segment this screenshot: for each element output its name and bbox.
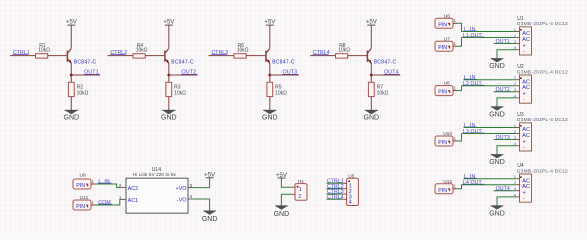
wire L1 OUT — [462, 37, 517, 39]
svg-text:R5: R5 — [275, 84, 282, 90]
transistor BC847-C — [66, 51, 68, 62]
wire +VO to +5V — [194, 178, 210, 188]
svg-text:+5V: +5V — [163, 19, 175, 26]
wire — [371, 74, 400, 76]
H1 pin 1 — [292, 186, 296, 188]
resistor R5 10k — [267, 82, 273, 96]
svg-text:AC2: AC2 — [128, 186, 139, 192]
svg-text:Hi Link 5V 220 to 5v: Hi Link 5V 220 to 5v — [133, 172, 177, 177]
wire — [457, 185, 462, 189]
svg-text:G3MB-202PL-4 DC12: G3MB-202PL-4 DC12 — [517, 117, 568, 122]
svg-text:OUT3: OUT3 — [496, 135, 510, 141]
wire L_IN — [464, 178, 517, 180]
svg-text:GND: GND — [489, 111, 505, 118]
svg-text:10kΩ: 10kΩ — [136, 48, 148, 54]
wire — [370, 63, 372, 82]
resistor R4 10k — [133, 54, 145, 58]
wire H1 pin2 to GND — [281, 194, 291, 206]
svg-text:+5V: +5V — [264, 19, 276, 26]
connector U10 PIN — [435, 136, 453, 146]
relay U1 pins 1-4 — [516, 31, 519, 33]
svg-text:U8: U8 — [444, 81, 450, 87]
svg-text:AC: AC — [522, 37, 530, 43]
relay U2 pins 1-4 — [516, 79, 519, 81]
svg-text:U9: U9 — [80, 173, 86, 179]
wire OUT3 — [494, 139, 517, 141]
svg-text:+5V: +5V — [366, 19, 378, 26]
svg-text:-: - — [523, 196, 525, 202]
svg-text:GND: GND — [489, 159, 505, 166]
wire — [327, 188, 344, 190]
svg-text:R3: R3 — [174, 84, 181, 90]
svg-text:10kΩ: 10kΩ — [275, 91, 287, 97]
U14 pin 2 AC2 — [120, 187, 126, 189]
wire L3 OUT — [462, 133, 517, 135]
svg-text:PIN: PIN — [438, 188, 447, 194]
svg-text:GND: GND — [64, 115, 80, 122]
resistor R1 10k — [36, 54, 48, 58]
svg-text:PIN: PIN — [438, 22, 447, 28]
junction OUT1 — [70, 74, 73, 77]
svg-text:G3MB-202PL-4 DC12: G3MB-202PL-4 DC12 — [517, 168, 568, 173]
ground — [491, 206, 504, 210]
ground — [65, 110, 78, 114]
svg-text:BC847-C: BC847-C — [272, 59, 295, 65]
wire — [168, 97, 170, 111]
wire OUT1 — [494, 43, 517, 45]
ground — [275, 206, 288, 210]
connector U9 PIN — [73, 179, 91, 189]
svg-text:AC: AC — [522, 133, 530, 139]
resistor R6 10k — [234, 54, 246, 58]
svg-text:-: - — [523, 49, 525, 55]
ground — [203, 211, 216, 215]
wire L_IN — [464, 79, 517, 81]
wire — [169, 74, 198, 76]
svg-text:PIN: PIN — [438, 90, 447, 96]
U5 pin 3 — [343, 193, 346, 195]
wire L2 OUT — [462, 85, 517, 87]
svg-text:BC847-C: BC847-C — [374, 59, 397, 65]
resistor R2 10k — [68, 82, 74, 96]
ground — [263, 110, 276, 114]
wire — [209, 55, 235, 57]
ground — [491, 107, 504, 111]
U14 pin 1 AC1 — [120, 198, 126, 200]
wire L_IN — [464, 127, 517, 129]
connector U11 PIN — [73, 200, 91, 210]
svg-text:U11: U11 — [80, 195, 89, 201]
svg-text:-: - — [523, 145, 525, 151]
U5 pin 2 — [343, 188, 346, 190]
svg-text:GND: GND — [161, 115, 177, 122]
wire COM to AC1 — [95, 199, 121, 205]
svg-text:GND: GND — [262, 115, 278, 122]
wire — [310, 55, 336, 57]
wire — [457, 38, 462, 47]
wire — [108, 55, 134, 57]
wire to GND — [497, 98, 516, 107]
wire — [348, 55, 368, 57]
svg-text:PIN: PIN — [438, 45, 447, 51]
svg-text:10kΩ: 10kΩ — [77, 91, 89, 97]
svg-text:R7: R7 — [377, 84, 384, 90]
wire — [269, 63, 271, 82]
svg-text:U10: U10 — [443, 131, 452, 137]
wire — [71, 74, 100, 76]
svg-text:+5V: +5V — [66, 19, 78, 26]
svg-text:GND: GND — [489, 210, 505, 217]
resistor R3 10k — [166, 82, 172, 96]
junction OUT4 — [370, 74, 373, 77]
svg-text:-VO: -VO — [177, 198, 187, 204]
wire +5V to H1 pin1 — [281, 178, 291, 187]
svg-text:AC1: AC1 — [128, 198, 139, 204]
svg-text:-: - — [523, 97, 525, 103]
svg-text:R2: R2 — [77, 84, 84, 90]
svg-text:10kΩ: 10kΩ — [174, 91, 186, 97]
svg-text:10kΩ: 10kΩ — [377, 91, 389, 97]
wire — [327, 198, 344, 200]
wire — [48, 55, 68, 57]
svg-text:BC847-C: BC847-C — [74, 59, 97, 65]
U5 pin 4 — [343, 198, 346, 200]
connector U7 PIN — [435, 41, 453, 51]
resistor R7 10k — [368, 82, 374, 96]
relay U3 pins 1-4 — [516, 127, 519, 129]
svg-text:GND: GND — [364, 115, 380, 122]
wire — [269, 97, 271, 111]
wire L4 OUT — [462, 184, 517, 186]
connector U8 PIN — [435, 86, 453, 96]
wire — [457, 134, 462, 142]
svg-text:4: 4 — [349, 200, 352, 206]
wire OUT2 — [494, 91, 517, 93]
U5 pin 1 — [343, 182, 346, 184]
wire — [70, 97, 72, 111]
wire to GND — [497, 197, 516, 206]
svg-text:GND: GND — [202, 216, 218, 223]
svg-text:U12: U12 — [443, 179, 452, 185]
ground — [162, 110, 175, 114]
connector U6 PIN — [435, 18, 453, 28]
wire — [370, 97, 372, 111]
svg-text:2: 2 — [298, 194, 301, 200]
wire — [70, 63, 72, 82]
wire — [270, 74, 299, 76]
transistor BC847-C — [265, 51, 267, 62]
ground — [491, 155, 504, 159]
U14 pin 4 -VO — [188, 198, 194, 200]
wire — [168, 63, 170, 82]
svg-text:BC847-C: BC847-C — [171, 59, 194, 65]
wire — [370, 25, 372, 48]
wire — [168, 25, 170, 48]
svg-text:OUT4: OUT4 — [496, 186, 510, 192]
wire — [457, 23, 462, 31]
svg-text:PIN: PIN — [438, 140, 447, 146]
U14 pin 3 +VO — [188, 187, 194, 189]
svg-text:U7: U7 — [444, 36, 450, 42]
svg-text:1: 1 — [299, 187, 302, 193]
wire L_IN to AC2 — [95, 184, 121, 188]
wire — [145, 55, 165, 57]
svg-text:U6: U6 — [444, 13, 450, 19]
connector U12 PIN — [435, 184, 453, 194]
svg-text:GND: GND — [274, 211, 290, 218]
svg-text:AC: AC — [522, 85, 530, 91]
svg-text:OUT1: OUT1 — [496, 39, 510, 45]
svg-text:10kΩ: 10kΩ — [237, 48, 249, 54]
wire — [246, 55, 266, 57]
transistor BC847-C — [164, 51, 166, 62]
svg-text:10kΩ: 10kΩ — [338, 48, 350, 54]
svg-text:GND: GND — [489, 63, 505, 70]
wire — [269, 25, 271, 48]
wire to GND — [497, 146, 516, 155]
wire — [70, 25, 72, 48]
H1 pin 2 — [292, 193, 296, 195]
svg-text:PIN: PIN — [76, 204, 85, 210]
relay U4 pins 1-4 — [516, 178, 519, 180]
wire OUT4 — [494, 190, 517, 192]
transistor BC847-C — [366, 51, 368, 62]
wire — [10, 55, 36, 57]
svg-text:10kΩ: 10kΩ — [38, 48, 50, 54]
resistor R8 10k — [336, 54, 348, 58]
svg-text:OUT2: OUT2 — [496, 87, 510, 93]
svg-text:G3MB-202PL-4 DC12: G3MB-202PL-4 DC12 — [517, 21, 568, 26]
wire -VO to GND — [194, 199, 210, 211]
junction OUT3 — [268, 74, 271, 77]
wire — [327, 193, 344, 195]
svg-text:AC: AC — [522, 184, 530, 190]
ground — [365, 110, 378, 114]
wire — [457, 86, 462, 91]
svg-text:G3MB-202PL-4 DC12: G3MB-202PL-4 DC12 — [517, 69, 568, 74]
wire L_IN — [462, 31, 517, 33]
svg-text:+VO: +VO — [175, 186, 186, 192]
junction OUT2 — [167, 74, 170, 77]
ground — [491, 59, 504, 63]
wire to GND — [497, 50, 516, 59]
svg-text:PIN: PIN — [76, 183, 85, 189]
wire — [327, 182, 344, 184]
